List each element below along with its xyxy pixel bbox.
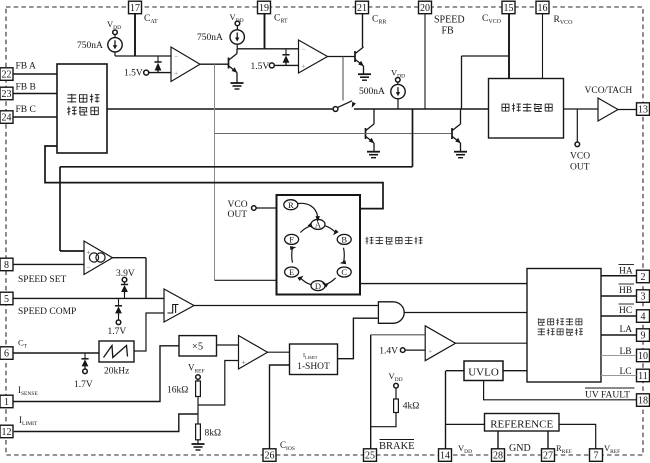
label CVCO [482,14,502,25]
svg-text:E: E [289,267,294,277]
current source 750nA #2 [230,12,245,49]
wire divider junction [198,361,239,425]
wire FB A [13,73,57,75]
wire comp2 output to Q4 base [328,56,356,58]
ground Q2 [367,143,380,158]
wire pin19 CRT [264,14,266,49]
wire sampler output to switch [107,108,333,110]
arrow E to F [290,245,297,262]
wire ISENSE [13,346,179,402]
svg-text:+: + [302,62,306,71]
wire CRT node [237,48,299,50]
label CRT [274,14,288,25]
label HC [619,304,635,316]
svg-text:HB: HB [619,286,632,296]
svg-text:CIOS: CIOS [280,440,295,452]
label LC [620,367,632,377]
arrow C to D [321,278,336,288]
svg-text:1.5V: 1.5V [124,69,143,79]
wire buffer to pin13 [618,109,637,111]
svg-text:1-SHOT: 1-SHOT [297,362,330,372]
pin 3 [637,290,650,303]
state C [337,267,351,277]
wire UVLO right [503,370,527,372]
wire line A [60,109,413,251]
one-shot block [290,344,338,375]
svg-text:ILIMIT: ILIMIT [19,415,38,427]
svg-text:13: 13 [638,105,648,116]
svg-text:SPEED SET: SPEED SET [18,275,66,285]
svg-text:VDD: VDD [458,443,472,455]
x5 gain block [179,336,217,356]
wire LB [601,355,637,357]
pin 9 [637,329,650,342]
svg-text:HC: HC [619,306,632,316]
wire pin21 to Q4 collector [363,14,364,47]
svg-text:23: 23 [2,89,12,100]
back-EMF sampler block [57,64,107,153]
svg-text:8: 8 [4,260,9,271]
svg-text:BRAKE: BRAKE [379,441,415,452]
state E [285,267,299,277]
pin 25 [364,449,377,462]
diode D2 [282,49,289,66]
resistor 16k [167,381,200,397]
label 750nA #2 [197,33,223,43]
label CRR [372,15,386,26]
wire state machine to gating logic [360,283,527,285]
pin 6 [0,347,13,360]
svg-text:+: + [428,347,432,356]
svg-text:1.4V: 1.4V [379,347,398,357]
wire LC [601,375,637,377]
wire line2 comp1 node to Q3 base [215,133,453,135]
terminal VCO OUT left [228,200,277,220]
diode D1 [154,56,161,73]
svg-text:UV FAULT: UV FAULT [585,391,630,401]
svg-text:750nA: 750nA [197,33,223,43]
svg-text:2: 2 [641,272,646,283]
svg-text:HA: HA [619,267,633,277]
current source 750nA #1 [107,19,122,56]
wire BRAKE vertical [371,335,426,449]
label LB [620,347,632,357]
wire Q2 collector [373,109,375,124]
svg-text:21: 21 [357,3,367,14]
wire CT [13,352,99,354]
svg-text:−: − [302,45,306,54]
svg-text:VREF: VREF [188,363,205,375]
current comparator U6 [239,336,268,370]
pin 7 [590,449,603,462]
reference VREF divider [188,363,205,382]
transistor Q2 [366,124,375,143]
ground Q3 [454,143,467,158]
diode 1.7V #1 [108,298,127,337]
gating logic and output driver block [527,269,601,383]
svg-text:28: 28 [493,451,503,462]
label HB [619,284,635,296]
reference 1.5V #1 [124,69,171,79]
svg-text:REFERENCE: REFERENCE [490,419,553,431]
svg-text:−: − [87,263,91,272]
state R [284,200,298,210]
label LA [620,325,633,335]
wire UVLO left [446,370,464,372]
wire line B [45,146,383,209]
arrow R to A [298,203,320,222]
wire FB C [13,116,57,118]
svg-text:UVLO: UVLO [468,367,499,379]
pin 12 [0,425,13,438]
wire AND out [404,312,527,314]
speed amplifier U4 [84,241,113,275]
pin 1 [0,395,13,408]
svg-text:RREF: RREF [556,443,572,455]
wire reference to RREF pin [547,431,549,449]
pin 24 [0,111,13,124]
wire reference to VREF pin [559,424,596,448]
wire x5 out [217,344,239,346]
svg-text:20kHz: 20kHz [104,367,129,377]
label BRAKE (active low) [379,440,415,453]
label CAT [144,14,158,25]
svg-text:CT: CT [18,338,28,350]
label ISENSE [18,385,38,397]
svg-text:FB A: FB A [16,62,36,72]
wire VCO to buffer [564,108,599,110]
label FB B [16,83,36,93]
wire Q1 collector [236,49,238,54]
svg-text:20: 20 [420,3,430,14]
wire LA [601,334,637,336]
arrow B to C [339,248,346,266]
svg-text:FB B: FB B [16,83,36,93]
svg-text:R: R [288,200,294,210]
svg-text:16kΩ: 16kΩ [167,386,188,396]
wire CVCO branch [462,56,510,109]
wire comp to one-shot [268,351,290,353]
svg-text:VDD: VDD [107,19,121,31]
state A [311,219,325,229]
pin 21 [356,1,369,14]
svg-text:RVCO: RVCO [554,15,574,26]
label 750nA #1 [77,41,103,51]
svg-text:500nA: 500nA [359,87,385,97]
hysteresis comparator U5 [164,289,194,322]
transistor Q3 [452,124,461,143]
VCO block [489,79,564,139]
label FB C [16,105,36,115]
wire Q3 collector [460,109,462,124]
wire pin17 CAT [134,14,136,56]
svg-text:9: 9 [641,331,646,342]
ground 8k resistor [192,440,205,450]
svg-text:×5: ×5 [192,342,203,353]
svg-text:SPEED: SPEED [434,15,465,26]
pin 11 [637,369,650,382]
svg-text:19: 19 [259,3,269,14]
svg-text:LA: LA [620,325,633,335]
label VREF pin7 [604,443,620,455]
label HA [619,265,635,277]
ground Q4 [358,66,371,80]
label SPEED FB [434,15,465,37]
label GND [509,443,531,454]
svg-text:B: B [341,235,347,245]
pin 10 [637,349,650,362]
pin 20 [419,1,432,14]
REFERENCE block [485,414,560,432]
wire HB [601,295,637,297]
svg-text:CRR: CRR [372,15,386,26]
label UV FAULT [585,388,635,401]
wire VDD pin14 [446,371,485,449]
label CT [18,338,28,350]
wire HA [601,275,637,277]
pin 23 [0,87,13,100]
pin 18 [637,394,650,407]
pin 2 [637,270,650,283]
svg-text:FB: FB [442,26,455,37]
svg-text:11: 11 [638,371,648,382]
svg-text:D: D [315,281,321,291]
svg-text:24: 24 [2,113,12,124]
wire ILIMIT [14,414,198,432]
svg-text:17: 17 [130,3,140,14]
svg-text:OUT: OUT [570,163,590,173]
wire comp1 inverting input [115,55,171,57]
label commutation state machine [365,237,422,245]
brake comparator U8 [425,326,455,361]
reference 1.4V [379,347,425,357]
wire HC [601,315,637,317]
vertical from comp1 output node [214,64,216,280]
svg-text:3: 3 [641,292,646,303]
svg-text:CVCO: CVCO [482,14,502,25]
wire switch to VCO [354,108,489,110]
pin 15 [502,1,515,14]
wire to state machine left [215,279,277,281]
20kHz oscillator block [99,341,134,377]
svg-text:OUT: OUT [228,210,248,220]
wire SPEED SET [13,263,84,265]
label RVCO [554,15,574,26]
svg-text:18: 18 [638,396,648,407]
label FB A [16,62,36,72]
label VDD pin14 [458,443,472,455]
diode 1.7V #2 [74,353,93,390]
pin 16 [536,1,549,14]
wire reference to GND pin [497,431,499,449]
pin 17 [129,1,142,14]
svg-text:1.5V: 1.5V [251,62,270,72]
pin 26 [263,449,276,462]
svg-text:1.7V: 1.7V [74,380,93,390]
svg-text:VCO/TACH: VCO/TACH [585,86,633,96]
arrow F to A [300,223,314,233]
AND gate U7 [378,302,404,324]
resistor 8k [196,424,221,440]
pin 27 [542,449,555,462]
reference 1.5V #2 [251,62,299,72]
wire pin20 SPEED FB [424,14,426,109]
label VCO/TACH [585,86,633,96]
svg-text:FB C: FB C [16,105,36,115]
label CIOS [280,440,295,452]
label ILIMIT [19,415,38,427]
wire brake comp out [456,342,528,344]
label 500nA [359,87,385,97]
zener 3.9V [116,269,135,298]
svg-text:22: 22 [2,70,12,81]
wire comp1 output to Q1 base [200,63,228,65]
pin 5 [0,292,13,305]
buffer U3 VCO/TACH [598,98,618,121]
svg-text:SPEED COMP: SPEED COMP [18,307,76,317]
state D [311,281,325,291]
svg-text:VDD: VDD [389,371,403,383]
svg-text:VCO: VCO [570,152,590,162]
state B [337,234,351,244]
pin 28 [492,449,505,462]
comparator U2 CRT [299,40,328,73]
svg-text:10: 10 [638,351,648,362]
commutation switch [333,101,356,112]
svg-text:VCO: VCO [228,200,248,210]
current source 500nA [391,68,405,110]
svg-text:A: A [315,220,322,230]
pin 22 [0,68,13,81]
svg-text:16: 16 [538,3,548,14]
svg-text:4: 4 [641,312,646,323]
svg-text:GND: GND [509,443,531,454]
svg-text:6: 6 [4,349,9,360]
svg-text:ISENSE: ISENSE [18,385,38,397]
svg-text:7: 7 [594,451,599,462]
arrow A to B [325,226,338,237]
label RREF [556,443,572,455]
wire pin15 CVCO [508,14,510,79]
transistor Q1 [229,54,238,73]
wire switch control [342,57,344,101]
wire SPEED COMP [13,297,164,299]
wire CIOS [270,365,290,449]
svg-text:5: 5 [4,294,9,305]
ground Q1 [231,73,244,90]
svg-text:CRT: CRT [274,14,288,25]
svg-text:4kΩ: 4kΩ [403,402,420,412]
svg-text:1: 1 [4,397,9,408]
svg-text:CAT: CAT [144,14,158,25]
svg-text:27: 27 [543,451,553,462]
label SPEED COMP [18,307,76,317]
pin 14 [439,449,452,462]
svg-text:+: + [174,69,178,78]
wire one-shot out to AND [338,318,378,359]
label SPEED SET [18,275,66,285]
svg-text:VREF: VREF [604,443,620,455]
pin 8 [0,258,13,271]
svg-text:15: 15 [504,3,514,14]
comparator U1 CAT [171,47,200,82]
svg-text:26: 26 [265,451,275,462]
transistor Q4 [355,47,364,66]
resistor 4k pullup [371,371,420,427]
svg-text:14: 14 [440,451,450,462]
pin 19 [258,1,271,14]
svg-text:25: 25 [365,451,375,462]
svg-text:+: + [242,358,246,367]
pin 4 [637,310,650,323]
terminal VCO OUT right [570,109,590,173]
svg-text:F: F [289,235,294,245]
arrow D to E [297,274,310,285]
wire FB B [13,93,57,95]
svg-text:1.7V: 1.7V [108,327,127,337]
svg-text:ILIMIT: ILIMIT [303,353,318,360]
wire pin16 RVCO [542,14,544,79]
wire hyst comp out to AND [194,305,378,307]
UVLO block [464,361,503,381]
svg-text:−: − [174,52,178,61]
commutation state machine block [277,195,361,295]
svg-text:C: C [341,267,347,277]
wire speed amp out [113,258,147,299]
svg-text:8kΩ: 8kΩ [205,429,222,439]
svg-text:750nA: 750nA [77,41,103,51]
svg-text:12: 12 [2,427,12,438]
state F [285,234,299,244]
wire UVLO to UV FAULT [484,381,637,400]
pin 13 [637,103,650,116]
wire osc to hyst comp [134,313,164,351]
